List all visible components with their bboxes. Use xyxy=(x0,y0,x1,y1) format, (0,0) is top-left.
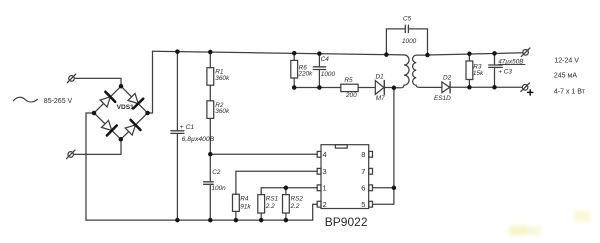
svg-text:5: 5 xyxy=(361,200,365,209)
svg-text:2.2: 2.2 xyxy=(290,203,300,210)
wire drain vertical (primary bottom to pins 5/6) xyxy=(393,88,395,204)
svg-text:245 мА: 245 мА xyxy=(554,73,577,80)
svg-text:RS2: RS2 xyxy=(291,195,304,202)
resistor R6 leads xyxy=(293,53,295,60)
junction C1 bottom xyxy=(175,218,180,223)
IC U1 notch xyxy=(335,145,347,148)
wire clamp bottom R6/C4 to R5 xyxy=(294,87,341,89)
svg-text:1000: 1000 xyxy=(321,71,336,78)
junction R4 bottom xyxy=(234,218,239,223)
resistor R6 body xyxy=(291,60,298,78)
top rail left section xyxy=(153,51,405,55)
IC U1 pin 5 box xyxy=(369,201,373,207)
resistor R3 body xyxy=(466,61,473,80)
resistor RS2 bottom lead xyxy=(285,213,287,220)
bridge diode VDS1-d (bottom to right) xyxy=(125,120,140,135)
resistor R3 leads xyxy=(468,54,470,61)
capacitor C4 leads xyxy=(318,54,320,67)
svg-text:220k: 220k xyxy=(297,70,313,77)
junction C2 bottom xyxy=(208,218,213,223)
svg-text:C2: C2 xyxy=(212,169,221,176)
svg-text:1000: 1000 xyxy=(402,38,417,45)
wire pin 6 to drain line xyxy=(373,187,394,189)
svg-text:100n: 100n xyxy=(212,185,227,192)
underline of C3 value xyxy=(498,64,525,66)
junction C4 bottom xyxy=(317,85,322,90)
wire upper AC input to bridge top node xyxy=(74,78,121,86)
junction C5 right xyxy=(425,53,430,58)
svg-text:4-7 x 1 Вт: 4-7 x 1 Вт xyxy=(554,89,586,96)
capacitor C5 right leg xyxy=(408,29,427,55)
svg-text:+ C1: + C1 xyxy=(180,124,195,131)
junction R3 top xyxy=(467,52,472,57)
bottom rail xyxy=(86,219,313,221)
junction C3 bottom xyxy=(492,85,497,90)
input terminal upper xyxy=(67,74,76,83)
wire pin 3 to R4 xyxy=(236,171,317,194)
capacitor C1 plates xyxy=(171,131,184,134)
output terminal upper xyxy=(521,48,530,57)
wire bridge right node to top rail xyxy=(148,51,153,113)
svg-text:ES1D: ES1D xyxy=(434,95,451,102)
IC U1 BP9022 body xyxy=(321,145,369,209)
wire R5 to D1 xyxy=(358,87,375,89)
junction R6 top xyxy=(292,51,297,56)
svg-text:R4: R4 xyxy=(240,196,249,203)
resistor R2 body xyxy=(207,101,214,119)
transformer T1 secondary winding xyxy=(413,55,442,87)
output terminal lower xyxy=(521,83,530,92)
output plus polarity mark xyxy=(528,90,533,95)
resistor chain R1/R2 leads and C2 lead xyxy=(209,52,211,68)
junction C1 top xyxy=(175,49,180,54)
capacitor C1 leads xyxy=(176,52,178,131)
capacitor C2 plates xyxy=(204,182,214,185)
node bridge left xyxy=(92,111,97,116)
svg-text:R5: R5 xyxy=(344,77,353,84)
capacitor C5 left leg xyxy=(386,29,405,55)
capacitor C4 plates xyxy=(313,67,325,70)
resistor RS2 top lead xyxy=(285,188,287,195)
junction C3 top xyxy=(492,51,497,56)
svg-text:C5: C5 xyxy=(403,15,412,22)
svg-text:7: 7 xyxy=(361,167,365,176)
diode D1 xyxy=(375,81,384,95)
bridge diode VDS1-b (top to right) xyxy=(128,93,143,108)
capacitor C3 plates xyxy=(489,65,503,67)
IC U1 pin 2 box xyxy=(317,201,321,207)
svg-text:2.2: 2.2 xyxy=(265,203,275,210)
svg-text:200: 200 xyxy=(345,92,357,99)
svg-text:C4: C4 xyxy=(321,56,330,63)
wire bridge left node to bottom rail xyxy=(86,113,94,220)
resistor R5 body xyxy=(341,84,358,91)
junction RS2 bottom xyxy=(284,218,289,223)
IC U1 pin 3 box xyxy=(317,168,321,174)
svg-text:12-24 V: 12-24 V xyxy=(554,57,579,64)
junction R1 top xyxy=(208,50,213,55)
bridge diode VDS1-c (left to bottom) xyxy=(102,120,117,135)
junction C4 top xyxy=(317,51,322,56)
capacitor C5 plates xyxy=(405,25,408,32)
svg-text:360k: 360k xyxy=(215,108,230,115)
svg-text:D1: D1 xyxy=(376,73,385,80)
svg-text:85-265 V: 85-265 V xyxy=(44,98,73,105)
IC U1 pin 6 box xyxy=(369,185,373,191)
junction RS1 bottom xyxy=(259,218,264,223)
svg-text:15k: 15k xyxy=(473,70,484,77)
resistor R4 bottom lead xyxy=(235,211,237,220)
top rail right section xyxy=(428,53,523,55)
resistor RS2 body xyxy=(283,195,290,213)
transformer T1 primary winding xyxy=(394,55,409,88)
node bridge bottom xyxy=(119,137,124,142)
svg-text:D2: D2 xyxy=(443,74,452,81)
svg-text:91k: 91k xyxy=(240,203,251,210)
wire pin 4 to R2/C2 node xyxy=(210,153,317,155)
junction R6 bottom xyxy=(292,85,297,90)
wire D1 to drain node xyxy=(384,87,394,89)
junction RS2 top xyxy=(284,186,289,191)
input terminal lower xyxy=(66,150,75,159)
AC source tilde symbol xyxy=(14,97,38,102)
wire pin 5 to drain line xyxy=(373,203,394,205)
svg-text:6: 6 xyxy=(361,184,365,193)
resistor R1 body xyxy=(207,68,214,86)
svg-text:VDS1: VDS1 xyxy=(117,104,135,111)
svg-text:RS1: RS1 xyxy=(266,195,279,202)
capacitor C3 leads xyxy=(494,53,496,65)
wire pin 1 to RS1/RS2 tops xyxy=(261,188,317,195)
svg-text:2: 2 xyxy=(323,200,327,209)
watermark blobs xyxy=(509,211,590,235)
wire lower AC input to bridge bottom node xyxy=(74,139,121,154)
resistor R4 body xyxy=(233,194,240,211)
svg-text:6,8µx400В: 6,8µx400В xyxy=(182,136,215,143)
diode D2 xyxy=(442,82,450,93)
IC U1 pin 8 box xyxy=(369,151,373,157)
svg-text:BP9022: BP9022 xyxy=(325,215,368,229)
svg-text:8: 8 xyxy=(361,150,365,159)
IC U1 pin 7 box xyxy=(369,168,373,174)
svg-text:360k: 360k xyxy=(215,75,230,82)
bridge diode VDS1-a (left to top) xyxy=(100,92,115,107)
svg-text:3: 3 xyxy=(323,167,327,176)
bridge diamond edges xyxy=(94,86,148,139)
IC U1 pin 1 box xyxy=(317,185,321,191)
wire D2 to output terminal xyxy=(450,86,522,88)
junction C5 left xyxy=(384,52,389,57)
IC U1 pin 4 box xyxy=(317,151,321,157)
junction drain node xyxy=(392,86,397,91)
junction pin6 / drain xyxy=(392,186,397,191)
wire pin 2 to bottom rail xyxy=(313,204,318,220)
junction R3 bottom xyxy=(467,85,472,90)
svg-text:M7: M7 xyxy=(376,95,385,102)
node bridge top xyxy=(119,84,124,89)
svg-text:4: 4 xyxy=(323,150,327,159)
node bridge right xyxy=(145,111,150,116)
resistor RS1 body xyxy=(258,195,265,213)
junction pin4 / R2-C2 xyxy=(208,152,213,157)
svg-text:1: 1 xyxy=(323,184,327,193)
svg-text:+ C3: + C3 xyxy=(498,69,512,76)
resistor RS1 bottom lead xyxy=(260,213,262,220)
